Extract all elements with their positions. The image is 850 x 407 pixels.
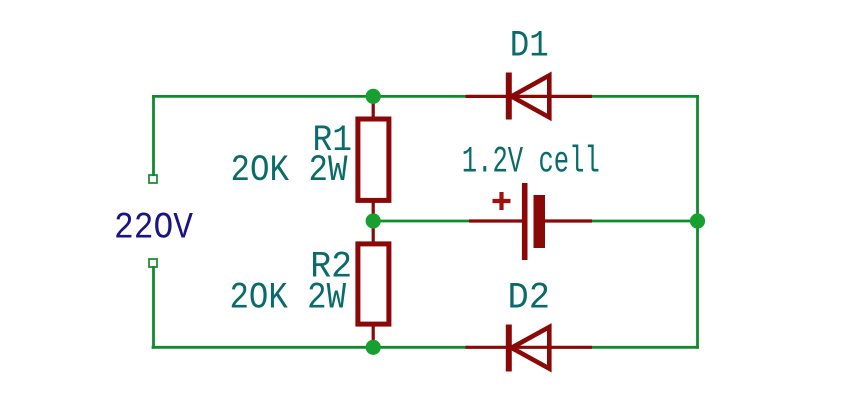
node junction dot middle (R1-R2 / cell) <box>366 213 381 228</box>
diode D1 triangle <box>512 75 550 117</box>
wire middle horizontal left segment <box>373 220 470 223</box>
diode D2 lead through triangle to right <box>509 346 592 349</box>
wire middle horizontal right segment <box>591 220 698 223</box>
svg-text:D1: D1 <box>510 26 549 68</box>
svg-text:1.2V cell: 1.2V cell <box>462 142 600 184</box>
resistor R2 body <box>358 244 389 324</box>
resistor R2 lead top <box>372 221 375 243</box>
diode D2 triangle <box>512 327 550 369</box>
resistor R1 lead bottom <box>372 201 375 221</box>
svg-text:2OK 2W: 2OK 2W <box>231 150 349 192</box>
battery BT1 negative plate (short thick) <box>534 195 546 248</box>
terminal square lower (220V source pin) <box>149 259 157 267</box>
svg-text:2OK 2W: 2OK 2W <box>230 278 347 320</box>
svg-text:22OV: 22OV <box>114 208 193 250</box>
wire top horizontal left segment <box>152 95 467 98</box>
diode D1 lead through triangle to right <box>509 95 592 98</box>
wire left vertical lower <box>152 266 155 349</box>
battery BT1 lead right <box>545 219 592 222</box>
node junction dot right (cell return) <box>690 213 705 228</box>
diode D2 lead left <box>466 346 509 349</box>
svg-text:D2: D2 <box>508 278 551 320</box>
resistor R2 lead bottom <box>372 325 375 347</box>
battery BT1 lead left <box>469 219 522 222</box>
resistor R1 lead top <box>372 96 375 118</box>
terminal square upper (220V source pin) <box>149 175 157 183</box>
battery BT1 positive plate (long thin) <box>522 183 528 260</box>
diode D1 cathode bar <box>506 73 512 120</box>
node junction dot bottom (R2 / D2 branch) <box>366 340 381 355</box>
wire left vertical upper <box>152 95 155 176</box>
diode D2 cathode bar <box>506 325 512 372</box>
battery plus sign <box>493 192 511 210</box>
diode D1 lead left <box>466 95 509 98</box>
wire top horizontal right segment <box>591 95 699 98</box>
wire bottom horizontal right segment <box>591 346 699 349</box>
wire bottom horizontal left segment <box>152 346 467 349</box>
resistor R1 body <box>358 119 389 200</box>
wire right vertical <box>696 95 699 349</box>
node junction dot top (R1 / D1 branch) <box>366 89 381 104</box>
